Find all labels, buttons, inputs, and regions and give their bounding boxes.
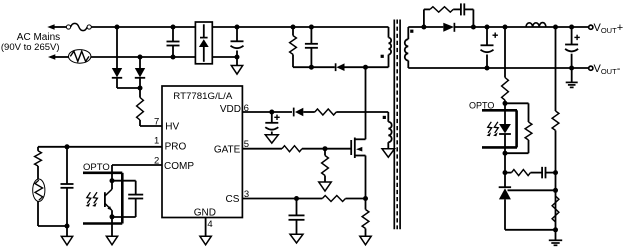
svg-text:4: 4 xyxy=(207,219,212,230)
svg-text:PRO: PRO xyxy=(165,142,187,153)
svg-text:7: 7 xyxy=(154,116,159,127)
svg-text:GND: GND xyxy=(194,207,216,218)
svg-text:(90V to 265V): (90V to 265V) xyxy=(1,42,60,53)
svg-text:OPTO: OPTO xyxy=(83,162,110,173)
svg-text:HV: HV xyxy=(165,121,179,132)
svg-text:COMP: COMP xyxy=(164,161,194,172)
svg-text:RT7781G/L/A: RT7781G/L/A xyxy=(173,91,233,102)
svg-text:1: 1 xyxy=(154,136,159,147)
svg-text:OPTO: OPTO xyxy=(469,100,494,110)
svg-text:VDD: VDD xyxy=(220,104,241,115)
svg-text:GATE: GATE xyxy=(214,144,241,155)
svg-text:CS: CS xyxy=(225,194,239,205)
